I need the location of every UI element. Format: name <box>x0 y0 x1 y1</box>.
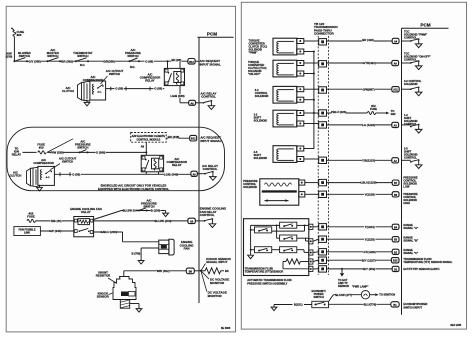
wire label BR (66) <box>171 58 182 62</box>
fan power wire to motor <box>94 230 159 242</box>
A/C master switch <box>47 48 62 62</box>
wire pressure control high <box>305 192 392 196</box>
pass-thru connector (PC low) <box>319 179 327 185</box>
svg-text:G/BLU (200): G/BLU (200) <box>101 230 117 234</box>
svg-text:PRESSURE SWITCH ASSEMBLY: PRESSURE SWITCH ASSEMBLY <box>247 281 287 285</box>
svg-text:G/Y (355): G/Y (355) <box>29 59 41 63</box>
svg-text:LG/B (336): LG/B (336) <box>170 94 184 98</box>
svg-text:N.C.: N.C. <box>80 63 85 67</box>
pin A6 (ECC) <box>191 171 205 176</box>
pass-thru connector (row 5 signal) <box>319 157 327 163</box>
svg-text:HIGH: HIGH <box>403 201 410 205</box>
TCC ON-OFF control driver <box>402 52 432 70</box>
svg-text:LBLU(1229): LBLU(1229) <box>361 181 377 185</box>
fuse #19 (fan feed) <box>27 211 35 222</box>
svg-text:G/P (940): G/P (940) <box>49 229 61 233</box>
TFT sensor label <box>245 266 284 273</box>
svg-text:RELAY: RELAY <box>172 163 181 167</box>
A/C pressure switch (fan) <box>123 198 169 216</box>
wire 1-2 feed (ignition) <box>304 104 396 116</box>
pin B6 <box>392 192 418 205</box>
svg-text:"PWM": "PWM" <box>249 50 259 54</box>
svg-text:RESISTOR: RESISTOR <box>96 274 111 278</box>
svg-text:O (56): O (56) <box>154 87 162 91</box>
A/C compressor relay (ECC) <box>141 155 187 172</box>
1-2 shift control driver <box>402 113 422 133</box>
pin A3 <box>392 122 399 127</box>
resistor (PCM internal) <box>201 268 229 274</box>
right page corner note <box>450 324 461 327</box>
node S2 output junction <box>272 225 309 232</box>
PWR lamp branch <box>329 284 395 301</box>
svg-text:GY(1226): GY(1226) <box>363 250 375 254</box>
svg-text:Y(1225): Y(1225) <box>365 237 375 241</box>
svg-text:B (750): B (750) <box>132 252 141 256</box>
svg-text:CONTROL: CONTROL <box>200 213 215 217</box>
pin B12 (top) <box>188 59 221 67</box>
svg-text:6E3 1485: 6E3 1485 <box>450 324 461 327</box>
node: PCM knock input junction <box>200 270 202 272</box>
svg-text:PCM: PCM <box>420 23 430 28</box>
TFT sensor resistor <box>283 259 309 269</box>
svg-text:CONTROL: CONTROL <box>203 167 218 171</box>
wire TCC PWM signal <box>304 38 392 42</box>
ECC control module (dashed) <box>131 133 167 143</box>
ground under compressor (top) <box>84 100 90 106</box>
svg-text:SWITCH: SWITCH <box>77 146 88 150</box>
A/C relay control driver (ECC) <box>202 164 218 181</box>
3-2 control solenoid <box>255 86 304 103</box>
pass-thru connector (row 4 signal) <box>319 122 327 128</box>
encircled note <box>98 184 169 191</box>
pass-thru connector label <box>314 22 338 36</box>
DC voltage monitor label 2 <box>201 271 227 298</box>
svg-text:BR (418): BR (418) <box>362 38 374 42</box>
svg-text:BK: BK <box>225 269 229 273</box>
A/C compressor (top) <box>83 75 106 100</box>
svg-text:EQUIPPED WITH ELECTRONIC CLIMA: EQUIPPED WITH ELECTRONIC CLIMATE CONTROL <box>98 187 169 191</box>
wire range A <box>313 225 392 229</box>
svg-text:FUSE: FUSE <box>27 214 35 218</box>
svg-text:SWITCH: SWITCH <box>19 54 30 58</box>
svg-text:TO IGNITION: TO IGNITION <box>379 293 395 297</box>
pin B15 <box>391 257 452 264</box>
pressure switch S3 <box>280 235 309 241</box>
svg-text:BR (362): BR (362) <box>61 59 73 63</box>
node: earth tap to other sensors <box>338 268 349 288</box>
encircled region boundary <box>7 127 225 191</box>
svg-text:FUSE: FUSE <box>370 107 377 111</box>
A/C clutch (ECC) <box>10 167 39 187</box>
economy/power switch <box>312 289 329 308</box>
TO IGN RELAY <box>12 146 21 156</box>
ECC feed wire <box>23 151 147 153</box>
svg-text:O (56): O (56) <box>115 87 123 91</box>
svg-text:P/W (339): P/W (339) <box>51 151 64 155</box>
pressure switch S1 <box>250 227 272 233</box>
left page frame <box>6 6 235 332</box>
svg-text:SWITCH: SWITCH <box>313 295 323 299</box>
engine cooling fan relay <box>70 207 101 237</box>
svg-text:SIGNAL INPUT: SIGNAL INPUT <box>206 260 227 264</box>
wire 2-3 feed to bus <box>304 148 314 150</box>
2-3 shift control driver <box>402 147 422 169</box>
svg-text:INPUT SIGNAL: INPUT SIGNAL <box>200 139 221 143</box>
svg-text:G/YR(422): G/YR(422) <box>362 61 376 65</box>
svg-text:BLU/W 204: BLU/W 204 <box>123 209 138 213</box>
1-2 shift solenoid <box>254 110 304 127</box>
pressure switch S2 <box>251 222 297 228</box>
A/C pressure switch (ECC) <box>75 140 91 154</box>
wire TCC PWM feed to bus <box>304 51 315 53</box>
pass-thru connector (range C) <box>319 249 327 255</box>
svg-text:RELAY: RELAY <box>145 78 154 82</box>
svg-text:LG/B (346): LG/B (346) <box>164 173 178 177</box>
pin D2 <box>392 266 439 271</box>
wire TCC ON-OFF feed to bus <box>304 73 315 75</box>
svg-text:LG (1222): LG (1222) <box>362 123 375 127</box>
svg-text:SIGNAL "B": SIGNAL "B" <box>403 238 419 242</box>
ground bus (TFPS) <box>248 225 254 258</box>
A/C clutch (top) <box>62 81 90 101</box>
thermostat switch <box>73 51 93 67</box>
svg-text:LINK: LINK <box>24 231 30 235</box>
pressure control solenoid <box>243 179 304 205</box>
wire 2-3 signal <box>304 158 392 162</box>
svg-text:CONTROL: CONTROL <box>201 95 216 99</box>
right page frame <box>241 2 466 329</box>
diagonal relay to pressure switch wire <box>94 211 166 220</box>
pass-thru connector (range B) <box>319 236 327 242</box>
pin B12 (ECC) <box>190 135 222 143</box>
wire label O (366) <box>96 151 107 155</box>
svg-text:IGN: IGN <box>391 112 396 116</box>
knock sensor ground <box>130 304 142 313</box>
svg-text:BLU(776): BLU(776) <box>364 302 377 306</box>
fuse #23 <box>11 28 24 38</box>
svg-text:N.O.: N.O. <box>130 65 136 69</box>
svg-text:SOLENOID: SOLENOID <box>255 94 269 98</box>
svg-text:RELAY: RELAY <box>12 152 21 156</box>
knock sensor signal input label <box>201 257 232 271</box>
knock sensor nut (hatched) <box>120 300 129 309</box>
svg-text:CONTROL MODULE: CONTROL MODULE <box>136 138 160 141</box>
pass-thru connector (row 4 feed) <box>319 110 327 116</box>
clutch feed wire (top) <box>106 87 165 91</box>
A/C compressor relay (top) <box>140 68 185 85</box>
pass-thru connector (row 1) <box>319 39 327 45</box>
svg-text:MONITOR: MONITOR <box>208 294 223 298</box>
svg-text:O (366): O (366) <box>96 151 106 155</box>
wire label BR (362) <box>61 59 73 63</box>
svg-text:V(1228): V(1228) <box>365 192 375 196</box>
pressure switch S5 <box>272 247 309 253</box>
svg-text:BR (348): BR (348) <box>168 135 180 139</box>
svg-text:#23: #23 <box>17 33 22 37</box>
svg-text:B/Y (452): B/Y (452) <box>363 267 375 271</box>
svg-text:"PWR LAMP": "PWR LAMP" <box>352 284 369 288</box>
svg-text:O (56): O (56) <box>72 172 80 176</box>
svg-text:Y/B(1223): Y/B(1223) <box>362 158 375 162</box>
svg-text:A.C.: A.C. <box>97 90 102 93</box>
wire range C <box>313 250 392 254</box>
knock sensor body <box>113 277 136 300</box>
TFPS edge pins <box>309 224 313 229</box>
svg-text:BLU/W (204): BLU/W (204) <box>155 219 172 223</box>
DC voltage monitor label 1 <box>201 271 229 285</box>
svg-text:CONNECTOR: CONNECTOR <box>314 32 335 36</box>
pin A2 <box>392 158 399 163</box>
svg-text:B(151): B(151) <box>294 303 303 307</box>
svg-text:MONITOR: MONITOR <box>210 281 225 285</box>
left page corner note <box>221 327 231 330</box>
A/C cutout switch label (top) <box>101 69 124 84</box>
svg-text:PCM: PCM <box>207 31 217 36</box>
svg-text:O (66): O (66) <box>145 59 153 63</box>
relay output to A6 (top) <box>170 86 188 103</box>
pin A9 (fan) <box>188 218 205 223</box>
pin A4 <box>392 38 399 43</box>
svg-text:B12: B12 <box>191 138 196 141</box>
wire fuse to blower switch <box>6 36 15 61</box>
svg-text:B15: B15 <box>393 260 398 263</box>
svg-text:SIGNAL "C": SIGNAL "C" <box>403 251 419 255</box>
svg-text:SIGNAL "A": SIGNAL "A" <box>403 226 419 230</box>
pin A11 <box>392 87 399 92</box>
svg-text:SENSOR: SENSOR <box>97 295 109 299</box>
node S3 feed <box>276 225 280 239</box>
svg-text:CONTROL: CONTROL <box>404 156 417 160</box>
A/C cutout switch label (ECC) <box>51 157 77 170</box>
pass-thru connector (TFT earth) <box>319 266 327 272</box>
wire TFT signal <box>313 258 392 262</box>
TCC solenoid PWM <box>249 38 304 55</box>
svg-text:CONTROL.: CONTROL. <box>404 58 418 62</box>
node: relay taps on main wire <box>167 60 181 68</box>
svg-text:B (150): B (150) <box>151 209 161 213</box>
TCC PWM control driver <box>402 29 428 47</box>
svg-text:COMPRESSOR: COMPRESSOR <box>33 161 54 165</box>
svg-text:A.C.: A.C. <box>46 176 51 179</box>
pin A9 (right page) <box>392 60 399 65</box>
svg-text:R/B (30): R/B (30) <box>51 219 62 223</box>
svg-text:B/Y (1227): B/Y (1227) <box>362 258 376 262</box>
economy switch earth wire <box>271 303 312 311</box>
3-2 control driver <box>402 79 422 96</box>
engine cooling fan motor <box>159 239 194 255</box>
fuse #19 (ECC) <box>37 142 48 154</box>
svg-text:SWITCH: SWITCH <box>47 54 58 58</box>
wire TFT earth <box>313 267 392 271</box>
pin B3 <box>392 235 419 242</box>
pin B4 <box>392 223 419 230</box>
PCM boundary (right page) <box>402 23 449 315</box>
svg-text:"ON-OFF": "ON-OFF" <box>248 72 261 76</box>
svg-text:RELAY: RELAY <box>81 210 90 214</box>
pin B7 <box>392 175 418 188</box>
TCC solenoid ON-OFF <box>248 60 304 77</box>
pin B8 (knock) <box>186 268 201 274</box>
pin B1 <box>391 302 428 310</box>
A/C relay control driver (top) <box>201 92 217 110</box>
svg-text:SWITCH: SWITCH <box>109 72 120 76</box>
wire label G/R(359) <box>103 59 115 63</box>
svg-text:A8: A8 <box>141 144 145 148</box>
svg-text:LOW: LOW <box>403 184 410 188</box>
node A8 module to relay <box>141 142 148 155</box>
knock sensor signal wire <box>124 269 187 277</box>
wire 1-2 signal <box>304 123 392 127</box>
svg-text:SOLENOID: SOLENOID <box>254 156 268 160</box>
svg-text:CONTROL.: CONTROL. <box>404 35 418 39</box>
TFPS assembly label <box>247 278 291 285</box>
wire range B <box>313 237 392 241</box>
pass-thru connector (TFT signal) <box>319 257 327 263</box>
svg-text:PBLU (220): PBLU (220) <box>331 110 346 114</box>
clutch feed wire (ECC) to A6 <box>54 172 191 177</box>
svg-text:W/R (812): W/R (812) <box>157 269 170 273</box>
svg-text:SWITCH: SWITCH <box>77 54 88 58</box>
fan ground <box>132 248 159 264</box>
svg-text:G/R(359): G/R(359) <box>103 59 115 63</box>
fan relay coil output to PCM <box>94 219 188 223</box>
svg-text:CLUTCH: CLUTCH <box>62 89 74 93</box>
wire TCC ON-OFF signal <box>304 61 392 65</box>
wire label P/W (339) <box>51 151 64 155</box>
shunt resistor label <box>96 271 117 284</box>
svg-text:TEMPERATURE (TFT) SENSOR SIGNA: TEMPERATURE (TFT) SENSOR SIGNAL <box>403 260 452 264</box>
pass-thru connector (range A) <box>319 224 327 230</box>
leader to pressure switch label <box>47 139 73 153</box>
svg-text:SOLENOID: SOLENOID <box>404 82 418 86</box>
svg-text:INPUT SIGNAL: INPUT SIGNAL <box>200 62 221 66</box>
A/C pressure switch (top) <box>125 48 141 69</box>
svg-text:BLU/W (277): BLU/W (277) <box>335 293 352 297</box>
svg-text:#19: #19 <box>39 145 44 149</box>
wire label O (66) <box>145 59 155 63</box>
svg-text:B12: B12 <box>189 61 194 64</box>
main A/C request wire <box>14 60 188 62</box>
svg-text:SWITCH: SWITCH <box>62 160 73 164</box>
pin B2 <box>392 248 419 255</box>
svg-text:SOLENOID: SOLENOID <box>243 185 257 189</box>
solenoid feed bus <box>313 52 315 149</box>
transmission fluid pressure switch assembly box <box>244 219 309 276</box>
PCM boundary (left page) <box>198 31 234 303</box>
blower switch <box>13 51 30 62</box>
pass-thru connector (row 3) <box>319 87 327 93</box>
economy switch signal wire <box>329 302 391 306</box>
wire BR (348) module to B12 <box>166 135 190 139</box>
fan fusible link <box>14 227 74 236</box>
2-3 shift solenoid <box>254 146 304 163</box>
ground under compressor (ECC) <box>37 185 43 191</box>
svg-text:T(1224): T(1224) <box>365 225 375 229</box>
svg-text:ECT/TFT/TP SENSOR EARTH: ECT/TFT/TP SENSOR EARTH <box>403 267 439 271</box>
svg-text:FAN: FAN <box>184 247 190 251</box>
wire label G/Y (355) <box>29 59 42 63</box>
pin A6 (top) <box>189 100 204 105</box>
pass-thru connector (PC high) <box>319 191 327 197</box>
wire pressure control low <box>305 181 392 185</box>
pressure switch S4 <box>250 247 272 253</box>
svg-text:6E 3005: 6E 3005 <box>221 327 231 330</box>
svg-text:SWITCH INPUT: SWITCH INPUT <box>403 305 422 309</box>
engine cooling fan relay control driver <box>200 207 227 228</box>
svg-text:BR (66): BR (66) <box>171 58 181 62</box>
svg-text:(230): (230) <box>6 55 13 59</box>
svg-text:SENSOR: SENSOR <box>338 284 349 288</box>
wire 3-2 signal <box>304 87 392 91</box>
svg-text:SWITCH: SWITCH <box>127 54 138 58</box>
wire 3-2 feed to bus <box>304 99 315 101</box>
A/C compressor (ECC) <box>33 158 54 185</box>
svg-text:CLUTCH: CLUTCH <box>10 173 22 177</box>
svg-text:G/W(687): G/W(687) <box>362 87 374 91</box>
knock sensor label <box>97 292 113 299</box>
svg-text:SOLENOID: SOLENOID <box>254 118 268 122</box>
pass-thru connector dashed lines <box>318 36 328 275</box>
fan relay coil feed wire <box>35 219 73 223</box>
pass-thru connector (row 2) <box>319 61 327 67</box>
svg-text:A11: A11 <box>393 89 398 92</box>
svg-text:TEMPERATURE (TFT)/SENSOR: TEMPERATURE (TFT)/SENSOR <box>245 270 284 274</box>
